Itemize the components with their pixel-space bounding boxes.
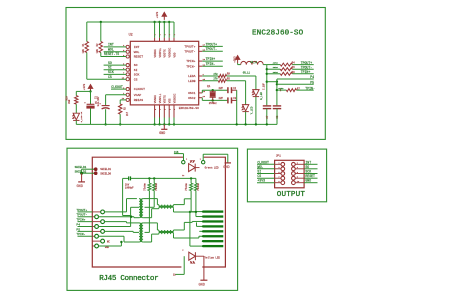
pin circle SI	[126, 68, 129, 71]
svg-text:+3V3: +3V3	[257, 179, 265, 183]
op IC U2 body	[130, 41, 198, 105]
wire	[75, 120, 77, 124]
wire CH2 top to pad3	[174, 229, 185, 231]
frame: RJ45 Connector box	[67, 148, 238, 290]
pin VDDOSC	[168, 38, 170, 42]
svg-text:49R9: 49R9	[278, 87, 284, 90]
wire 75ohm pair2	[190, 191, 192, 199]
svg-text:SCK: SCK	[108, 70, 114, 74]
svg-text:22P: 22P	[219, 87, 224, 90]
svg-text:NC: NC	[107, 240, 111, 243]
svg-text:TPIN+: TPIN+	[206, 57, 216, 61]
svg-text:12: 12	[182, 174, 184, 177]
wire	[245, 112, 247, 125]
pin 6 JP1	[292, 172, 296, 176]
pin 8 of RJ45 jack	[92, 245, 95, 247]
wire crystal caps to gnd	[236, 90, 238, 124]
svg-text:9: 9	[173, 109, 176, 110]
pad joint	[202, 240, 204, 242]
pad joint	[202, 230, 204, 232]
svg-text:2: 2	[186, 158, 187, 161]
wire to VDDRX	[154, 22, 156, 38]
svg-text:VSSPLL: VSSPLL	[159, 93, 162, 103]
svg-text:+3V3: +3V3	[156, 11, 159, 18]
junction	[120, 241, 122, 243]
junction	[89, 90, 91, 92]
wire T2 bottom to CH2	[143, 241, 152, 243]
junction	[255, 123, 257, 125]
resistor R4 49R9	[267, 64, 281, 66]
wire VSSTX to gnd rail	[163, 118, 165, 125]
wire link	[267, 81, 277, 83]
svg-text:SHIELD1: SHIELD1	[100, 168, 111, 171]
svg-text:+3V3: +3V3	[233, 56, 236, 63]
pin 3 JP1	[257, 168, 275, 170]
svg-text:OSC1: OSC1	[188, 91, 196, 95]
junction	[153, 123, 155, 125]
junction	[266, 81, 268, 83]
wire pad4 stub	[197, 225, 203, 227]
capacitor C2 22pF	[227, 87, 229, 93]
transformer T2 right winding	[141, 223, 143, 242]
pad joint	[202, 245, 204, 247]
wire TPOUT-	[292, 68, 313, 70]
svg-text:JP1: JP1	[276, 154, 281, 157]
svg-text:P4: P4	[76, 223, 80, 226]
pad joint	[202, 211, 204, 213]
pad 8 of RJ45	[203, 245, 224, 247]
junction	[212, 99, 214, 101]
svg-text:RESET: RESET	[305, 174, 315, 178]
svg-text:49R9: 49R9	[273, 71, 279, 74]
pin stub OSC2	[199, 97, 203, 99]
pin SHIELD1	[94, 167, 98, 171]
svg-text:TPOUT+: TPOUT+	[206, 42, 218, 46]
pin 2 JP1	[292, 162, 296, 166]
resistor 75ohm	[190, 178, 192, 183]
svg-text:TPIN+: TPIN+	[301, 70, 311, 74]
pin	[232, 89, 237, 91]
wire OSC2	[201, 98, 203, 101]
connector JP1 header body	[275, 160, 305, 188]
svg-text:270: 270	[213, 73, 218, 76]
svg-text:R10: R10	[66, 96, 69, 101]
wire	[245, 81, 247, 105]
wire to VDD	[173, 22, 175, 38]
wire T1 bottom to CH1	[143, 217, 152, 219]
pin VDDRX	[154, 38, 156, 42]
transformer T2 left winding	[139, 223, 141, 242]
pad 6 of RJ45	[203, 235, 224, 237]
pin VDD	[173, 38, 175, 42]
pin stub TPOUT-	[199, 50, 203, 52]
wire SCK	[104, 73, 127, 75]
LED2 Yellow LED	[189, 252, 196, 260]
capacitor C1 (VCAP 10uF)	[102, 105, 110, 107]
resistor 75ohm	[195, 178, 197, 183]
pin 6 of RJ45 jack	[92, 235, 95, 237]
resistor R3 2k7	[119, 104, 122, 114]
junction	[212, 89, 214, 91]
wire P5	[78, 230, 93, 232]
resistor R5 270 (LEDB)	[202, 80, 218, 82]
svg-text:C7: C7	[266, 115, 269, 119]
svg-text:RJ45 Connector: RJ45 Connector	[99, 275, 158, 283]
svg-text:75ohm: 75ohm	[143, 183, 146, 191]
pin stub LEDB	[199, 80, 203, 82]
capacitor C8	[273, 105, 281, 107]
wire 75ohm pair1 to taps	[148, 191, 150, 233]
LED1 Green LED	[189, 164, 196, 172]
wire TPIN-	[297, 89, 314, 91]
power +3V3 arrow top	[162, 12, 166, 20]
wire +3V3 top rail	[87, 21, 174, 23]
wire	[255, 76, 257, 90]
junction	[130, 216, 132, 218]
resistor R8 49R9	[267, 73, 281, 75]
svg-text:9: 9	[164, 109, 167, 110]
svg-text:VDDRX: VDDRX	[154, 49, 157, 57]
svg-text:SI: SI	[134, 68, 138, 72]
svg-text:TPIN-: TPIN-	[206, 62, 216, 66]
svg-text:2: 2	[164, 34, 166, 35]
svg-text:GND: GND	[223, 166, 229, 170]
power +3V3 arrow left	[88, 85, 92, 93]
junction	[276, 81, 278, 83]
svg-text:GND: GND	[159, 131, 165, 135]
pin 1 JP1	[257, 163, 275, 165]
wire SO	[104, 64, 127, 66]
pin VSSOSC	[173, 105, 175, 118]
wire TPOUT-	[78, 216, 93, 218]
svg-text:R_LED-1K: R_LED-1K	[80, 111, 83, 122]
svg-text:9: 9	[168, 109, 171, 110]
wire	[131, 177, 196, 179]
svg-text:2: 2	[174, 34, 176, 35]
junction	[266, 123, 268, 125]
svg-text:LEDA: LEDA	[188, 74, 196, 78]
wire TPIN+	[202, 60, 223, 62]
junction	[153, 177, 155, 179]
wire TPIN-	[78, 235, 93, 237]
svg-text:49R9: 49R9	[273, 66, 279, 69]
svg-text:TPIN-: TPIN-	[305, 86, 315, 90]
wire CH2 bottom to pad6	[173, 234, 175, 238]
ground symbol GND (yellow LED)	[200, 279, 207, 281]
svg-text:WOL: WOL	[108, 47, 114, 51]
svg-text:GND: GND	[105, 246, 110, 249]
svg-text:R9: R9	[227, 73, 231, 76]
pin VDDTX	[163, 38, 165, 42]
svg-text:P5: P5	[310, 81, 314, 85]
pin stub TPIN-	[199, 65, 203, 67]
junction	[173, 123, 175, 125]
wire pad5 stub	[200, 230, 203, 232]
svg-text:TPOUT+: TPOUT+	[301, 61, 313, 65]
wire VSSPLL to gnd rail	[159, 118, 161, 125]
svg-text:GND: GND	[199, 283, 205, 287]
wire pin2 to T1 bottom	[98, 216, 134, 218]
pin stub TPIN+	[199, 60, 203, 62]
wire yellow LED to GND	[195, 255, 204, 257]
junction	[80, 172, 83, 175]
svg-text:VDDOSC: VDDOSC	[169, 47, 172, 57]
choke CH2 bottom winding	[159, 232, 174, 234]
wire VSSRX to gnd rail	[154, 118, 156, 125]
svg-text:330: 330	[68, 99, 71, 104]
wire INT	[104, 46, 127, 48]
choke CH1 core	[159, 205, 174, 207]
pin 1 of RJ45 jack	[92, 211, 101, 213]
pin 9 JP1	[257, 182, 275, 184]
wire R2 to RESET	[100, 53, 102, 57]
pin circle WOL	[126, 50, 129, 53]
svg-text:10k: 10k	[96, 48, 99, 53]
wire OSC1	[201, 90, 203, 93]
transformer T1 left winding	[139, 199, 141, 218]
resistor 75ohm	[148, 178, 150, 183]
pin circle CS	[126, 78, 129, 81]
wire shield nets	[82, 168, 94, 170]
junction	[190, 177, 192, 179]
wire VSS to gnd rail	[168, 118, 170, 125]
wire VSSOSC to gnd rail	[173, 118, 175, 125]
svg-text:75ohm: 75ohm	[185, 183, 188, 191]
resistor R1 10k	[86, 22, 88, 42]
wire	[76, 90, 90, 92]
pin circle SCK	[126, 73, 129, 76]
svg-text:10k: 10k	[82, 48, 85, 53]
wire pin5 to T2 tap	[104, 230, 133, 232]
frame: OUTPUT box	[247, 149, 326, 202]
svg-text:TPOUT-: TPOUT-	[206, 47, 218, 51]
svg-text:9: 9	[159, 109, 162, 110]
svg-text:R1: R1	[82, 43, 85, 47]
svg-text:Yellow LED: Yellow LED	[205, 255, 221, 259]
svg-text:RESET: RESET	[134, 55, 143, 59]
svg-text:Y_LED: Y_LED	[250, 106, 253, 114]
svg-text:LEDB: LEDB	[188, 79, 196, 83]
power +3V3 arrow right	[235, 56, 239, 64]
pin 8 JP1	[292, 176, 296, 180]
wire T1 top to CH1	[143, 198, 157, 200]
pad 4 of RJ45	[203, 225, 224, 227]
gnd rail wire	[76, 123, 277, 125]
pin stub OSC1	[199, 92, 203, 94]
connector J1 RJ45 jack body	[92, 157, 225, 267]
capacitor C3 22pF	[227, 97, 229, 103]
svg-text:2: 2	[155, 34, 157, 35]
svg-text:SI: SI	[108, 66, 112, 70]
junction	[148, 177, 150, 179]
wire P4	[78, 226, 93, 228]
svg-text:GND: GND	[77, 185, 83, 189]
svg-text:WOL: WOL	[257, 165, 263, 169]
svg-text:270: 270	[213, 78, 218, 81]
pad joint	[202, 225, 204, 227]
svg-text:TPOUT-: TPOUT-	[76, 214, 87, 217]
wire T2 top to CH2	[143, 222, 157, 224]
pin circle RESET	[126, 55, 129, 58]
wire TPIN+	[78, 221, 93, 223]
svg-text:9: 9	[154, 109, 157, 110]
node v1 wire	[266, 65, 268, 106]
svg-text:P4: P4	[310, 75, 314, 79]
choke CH2 core	[159, 230, 174, 232]
pin stub LEDA	[199, 75, 203, 77]
pin VSSTX	[163, 105, 165, 118]
svg-text:SCK: SCK	[134, 73, 140, 77]
wire pin1 to T1 top	[104, 211, 127, 213]
svg-text:VDDTX: VDDTX	[164, 49, 167, 57]
junction	[244, 123, 246, 125]
junction	[163, 123, 165, 125]
wire TPOUT+	[202, 45, 223, 47]
pin 5 of RJ45 jack	[92, 230, 101, 232]
capacitor C5 tantalum	[90, 91, 92, 104]
svg-text:Q1: Q1	[207, 85, 211, 88]
crystal Q1 25MHz	[212, 90, 214, 92]
svg-text:SHIELD1: SHIELD1	[75, 166, 87, 169]
pin circle SO	[126, 64, 129, 67]
transformer T1 core	[139, 199, 141, 218]
svg-text:VDD: VDD	[173, 52, 176, 57]
wire VCAP	[106, 94, 127, 96]
svg-text:RBIAS: RBIAS	[134, 98, 143, 102]
transformer T1 right winding	[141, 199, 143, 218]
pin circle RBIAS	[126, 98, 129, 101]
resistor 75ohm	[153, 178, 155, 183]
pin 10 JP1	[292, 181, 296, 185]
junction	[276, 83, 278, 85]
wire SI	[104, 69, 127, 71]
svg-text:C16: C16	[174, 151, 179, 154]
wire yellow LED anode	[175, 273, 184, 275]
node v2 wire	[276, 79, 278, 105]
pin VSSPLL	[159, 105, 161, 118]
wire TPOUT-	[202, 50, 223, 52]
svg-text:+3V3: +3V3	[83, 83, 86, 90]
svg-text:TPOUT+: TPOUT+	[184, 45, 195, 49]
wire P4	[277, 78, 314, 80]
pin VSSRX	[154, 105, 156, 118]
wire WOL	[104, 51, 127, 53]
svg-text:CS: CS	[108, 75, 112, 79]
wire C16 stub	[174, 153, 184, 155]
wire termination to pad8	[189, 212, 191, 246]
pad joint	[202, 216, 204, 218]
wire pin6 to T2 bottom	[98, 235, 124, 237]
wire	[183, 154, 185, 161]
svg-text:G_LED: G_LED	[260, 92, 263, 100]
svg-text:49R9: 49R9	[273, 62, 279, 65]
svg-text:VCAP: VCAP	[134, 93, 142, 97]
wire CH1 top to pad1	[174, 204, 185, 206]
svg-text:Green LED: Green LED	[205, 167, 219, 170]
pad 5 of RJ45	[203, 230, 224, 232]
wire termination cap net	[123, 177, 129, 179]
capacitor C9 1000pF 2kV	[128, 176, 130, 180]
wire P5	[277, 83, 314, 85]
ground symbol GND (green LED)	[225, 162, 231, 164]
wire	[255, 97, 257, 125]
svg-text:VSSTX: VSSTX	[164, 95, 167, 103]
svg-text:RESET-TS: RESET-TS	[104, 52, 119, 56]
svg-text:INT: INT	[305, 160, 311, 164]
svg-text:CS: CS	[134, 77, 138, 81]
wire TPIN-	[202, 65, 223, 67]
inductor L1	[241, 61, 264, 64]
pin circle INT	[126, 45, 129, 48]
junction	[195, 211, 197, 213]
svg-text:CS: CS	[257, 174, 261, 178]
wire pin4 to T1 tap	[98, 226, 131, 228]
transformer T2 core	[139, 223, 141, 242]
svg-text:SO: SO	[108, 61, 112, 65]
wire C8 corner	[276, 109, 278, 125]
pin VDDPLL	[159, 38, 161, 42]
svg-text:SCK: SCK	[305, 170, 311, 174]
svg-text:INT: INT	[108, 43, 114, 47]
wire LEDA	[227, 75, 256, 77]
pad joint	[202, 220, 204, 222]
svg-text:R2: R2	[96, 43, 99, 47]
svg-text:TPIN+: TPIN+	[186, 59, 195, 63]
svg-text:TPIN+: TPIN+	[76, 219, 85, 222]
svg-text:TPOUT-: TPOUT-	[184, 49, 195, 53]
resistor R10	[75, 91, 77, 95]
svg-text:1000pF: 1000pF	[125, 187, 134, 190]
pin 2 of RJ45 jack	[92, 216, 95, 218]
junction	[153, 21, 155, 23]
pad 2 of RJ45	[203, 215, 224, 217]
svg-text:25MHz: 25MHz	[209, 102, 217, 105]
pad joint	[202, 235, 204, 237]
wire pin8 to T2 bottom	[99, 245, 122, 247]
resistor R2 10k	[100, 21, 102, 23]
wire TPIN+	[292, 73, 313, 75]
wire pin3 to T2 top	[104, 221, 127, 223]
pin circle green LED cathode	[202, 161, 205, 164]
choke CH2 top winding	[159, 230, 174, 232]
junction	[104, 123, 106, 125]
wire	[238, 64, 241, 66]
pin 7 of RJ45 jack	[92, 240, 101, 242]
pad 3 of RJ45	[203, 220, 224, 222]
wire CH1 bottom to pad2	[173, 209, 175, 212]
svg-text:GR_L1: GR_L1	[243, 72, 251, 75]
svg-text:C.1UF: C.1UF	[263, 82, 266, 90]
svg-text:SO: SO	[134, 63, 138, 67]
svg-text:75ohm: 75ohm	[197, 183, 200, 191]
pin 3 of RJ45 jack	[92, 221, 101, 223]
pad 7 of RJ45	[203, 240, 224, 242]
junction	[266, 68, 268, 70]
pin circle CLKOUT	[126, 88, 129, 91]
wire to VDDPLL	[159, 22, 161, 38]
svg-text:SHIELD0: SHIELD0	[100, 172, 111, 175]
wire CLKOUT stub	[111, 88, 126, 90]
pad 1 of RJ45	[203, 210, 224, 212]
wire	[263, 64, 267, 66]
pin	[195, 167, 199, 169]
choke CH1 bottom winding	[159, 206, 174, 208]
junction	[119, 123, 121, 125]
junction	[236, 123, 238, 125]
svg-text:TPIN-: TPIN-	[76, 233, 85, 236]
svg-text:ENC28J60-SO: ENC28J60-SO	[179, 106, 199, 110]
wire RBIAS	[120, 99, 126, 101]
